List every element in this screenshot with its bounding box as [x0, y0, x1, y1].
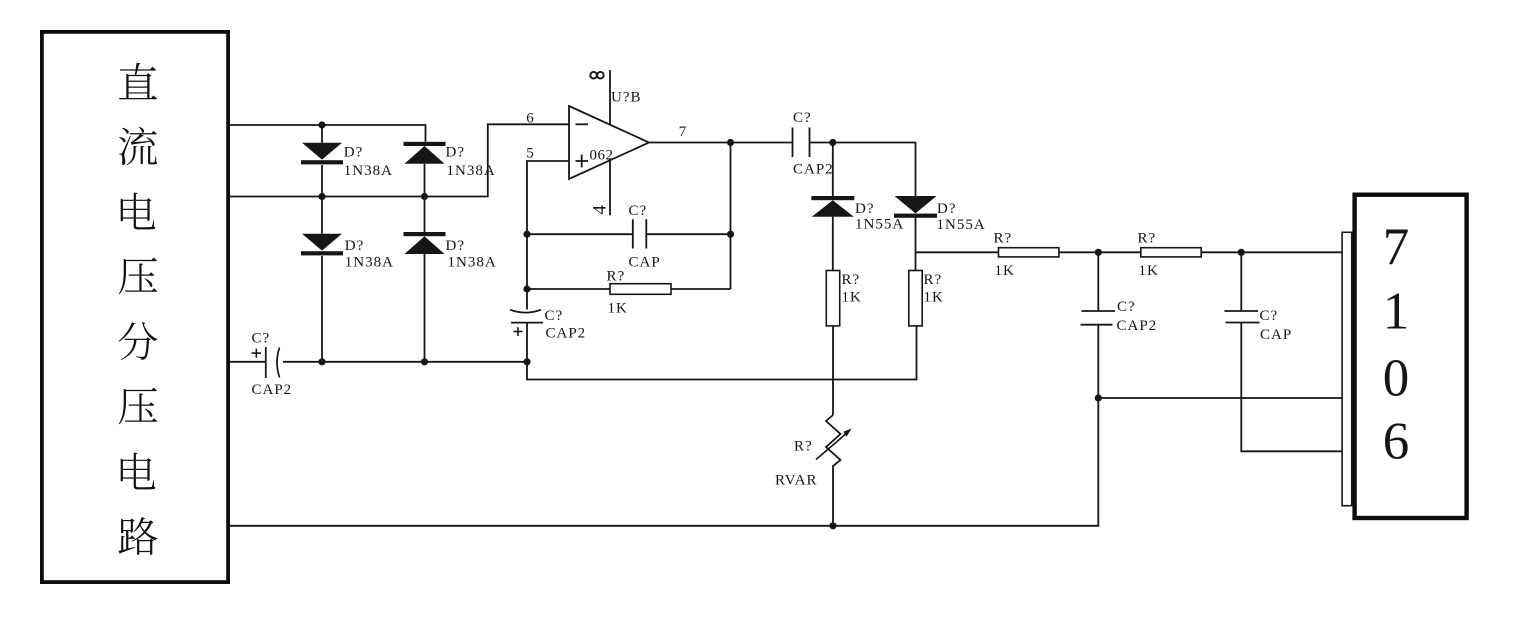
node junction D1/D3: [318, 193, 325, 200]
svg-text:C?: C?: [1260, 308, 1279, 324]
svg-text:R?: R?: [842, 272, 861, 288]
node junction top wire / D1: [318, 121, 325, 128]
svg-text:C?: C?: [629, 203, 648, 219]
resistor R1 1K (feedback): [610, 284, 671, 295]
capacitor C5 CAP2 (first filter cap): [1097, 252, 1099, 311]
wire second net from box to op-amp pin 6: [230, 124, 569, 196]
resistor R4 1K (first series): [999, 248, 1059, 257]
chinese char 直: [119, 63, 157, 100]
chinese char 流: [119, 127, 157, 166]
wire branch from D6/R3 node to output RC filter: [916, 251, 999, 253]
plus sign of C1: [252, 352, 262, 354]
diode D4 1N38A (right column bottom, cathode up): [424, 197, 426, 233]
svg-text:4: 4: [589, 205, 610, 215]
wire R4 to R5: [1059, 251, 1141, 253]
capacitor C3 CAP2 (electrolytic, vertical, below op-amp): [510, 310, 541, 313]
node junction pin5 line / R1: [523, 285, 530, 292]
node junction C1 wire / D3: [318, 358, 325, 365]
resistor R3 1K (below D6): [909, 271, 922, 326]
wire from C3 down and right to R4 bottom: [527, 326, 917, 380]
svg-text:D?: D?: [937, 201, 957, 217]
node junction pin5 line / C2: [523, 231, 530, 238]
resistor R2 1K (below D5): [826, 271, 839, 326]
op-amp U1B TL062 triangle: [569, 106, 649, 179]
plus sign of non-inverting input: [576, 160, 589, 162]
svg-text:1K: 1K: [608, 301, 628, 317]
svg-text:R?: R?: [994, 231, 1013, 247]
svg-text:1K: 1K: [995, 263, 1015, 279]
chinese char 路: [119, 517, 158, 555]
node junction D2/D4: [421, 193, 428, 200]
variable resistor R6 RVAR: [826, 415, 841, 526]
svg-text:D?: D?: [344, 145, 364, 161]
svg-text:1N38A: 1N38A: [345, 255, 394, 271]
svg-text:C?: C?: [793, 110, 812, 126]
svg-text:6: 6: [1383, 413, 1410, 471]
svg-text:1N55A: 1N55A: [855, 217, 904, 233]
svg-text:CAP2: CAP2: [793, 162, 834, 178]
minus sign of inverting input: [576, 123, 589, 125]
wire R5 to connector: [1201, 251, 1342, 253]
block 7106 ADC box: [1355, 195, 1467, 518]
svg-text:1K: 1K: [842, 290, 862, 306]
node junction R4/R5/C5: [1095, 249, 1102, 256]
diode D1 1N38A (left column top, cathode down): [321, 125, 323, 143]
node junction bottom riser / C5 / connector wire: [1095, 394, 1102, 401]
wire top net from box to diodes: [230, 125, 426, 142]
pin 4 power line of op-amp: [609, 161, 611, 216]
svg-text:U?B: U?B: [611, 90, 642, 106]
pin 8 number label (rotated, reads as infinity): [590, 72, 597, 79]
wire op-amp output pin 7: [649, 142, 793, 144]
left block: DC voltage divider circuit box: [42, 32, 228, 582]
capacitor C4 CAP2 (output coupling): [792, 128, 794, 158]
chinese char 分: [118, 322, 157, 360]
diode D3 1N38A (left column bottom, cathode down): [321, 197, 323, 234]
wire feedback resistor branch: [527, 288, 610, 290]
svg-text:C?: C?: [1117, 299, 1136, 315]
svg-text:D?: D?: [345, 238, 365, 254]
svg-text:R?: R?: [1138, 231, 1157, 247]
svg-text:CAP2: CAP2: [252, 382, 293, 398]
svg-text:1K: 1K: [924, 290, 944, 306]
svg-text:6: 6: [526, 111, 535, 127]
chinese char 电: [121, 453, 156, 490]
diode D2 1N38A (right column top, cathode up): [404, 142, 446, 146]
pin 8 power line of op-amp: [609, 70, 611, 125]
svg-text:RVAR: RVAR: [775, 473, 818, 489]
svg-text:7: 7: [1383, 219, 1410, 277]
svg-text:D?: D?: [855, 201, 875, 217]
capacitor C6 CAP (second filter cap): [1240, 252, 1242, 311]
svg-text:CAP: CAP: [629, 254, 661, 270]
svg-text:R?: R?: [794, 439, 813, 455]
plus sign of C3: [514, 331, 523, 333]
wire output vertical feedback: [730, 143, 732, 290]
svg-text:C?: C?: [545, 308, 564, 324]
node junction R5 wire / C6: [1238, 249, 1245, 256]
svg-text:D?: D?: [446, 145, 466, 161]
wire feedback capacitor branch: [527, 233, 633, 235]
wire from bottom riser to connector: [1098, 397, 1342, 399]
svg-text:1: 1: [1383, 283, 1410, 341]
node junction C4 wire / D5 branch: [829, 139, 836, 146]
svg-text:7: 7: [679, 124, 688, 140]
node junction C1 wire / D4: [421, 358, 428, 365]
svg-text:0: 0: [1383, 350, 1410, 408]
svg-text:1N38A: 1N38A: [344, 163, 393, 179]
svg-text:D?: D?: [446, 238, 466, 254]
wire pin 5 to vertical feedback node: [527, 161, 569, 310]
chinese char 压: [119, 388, 157, 425]
node junction C1 wire / C3: [523, 358, 530, 365]
arrow of RVAR: [816, 433, 848, 460]
diode D6 1N55A (cathode down): [895, 196, 937, 213]
svg-text:1N38A: 1N38A: [448, 255, 497, 271]
svg-text:R?: R?: [924, 272, 943, 288]
svg-text:R?: R?: [607, 269, 626, 285]
resistor R5 1K (second series): [1141, 248, 1201, 257]
chinese char 压: [119, 258, 157, 295]
svg-text:1K: 1K: [1139, 263, 1159, 279]
svg-text:1N55A: 1N55A: [937, 217, 986, 233]
node junction output / feedback vertical: [727, 139, 734, 146]
node junction C2 / output vertical: [727, 231, 734, 238]
wire bottom net from box: [230, 398, 1098, 526]
diode D5 1N55A (cathode up): [832, 143, 834, 197]
svg-text:C?: C?: [252, 331, 271, 347]
capacitor C1 CAP2 (electrolytic, horizontal, at box output): [230, 361, 266, 363]
wire R2 bottom through cross to RVAR: [832, 326, 834, 415]
svg-text:062: 062: [590, 148, 614, 164]
svg-text:CAP2: CAP2: [546, 326, 587, 342]
svg-text:5: 5: [526, 146, 535, 162]
capacitor C2 CAP (feedback): [632, 219, 634, 248]
chinese char 电: [121, 193, 156, 230]
svg-text:CAP2: CAP2: [1117, 318, 1158, 334]
connector pin strip of 7106: [1342, 232, 1352, 505]
svg-text:CAP: CAP: [1260, 327, 1292, 343]
wire C4 to right corner: [810, 143, 916, 197]
node junction RVAR / bottom wire: [829, 522, 836, 529]
